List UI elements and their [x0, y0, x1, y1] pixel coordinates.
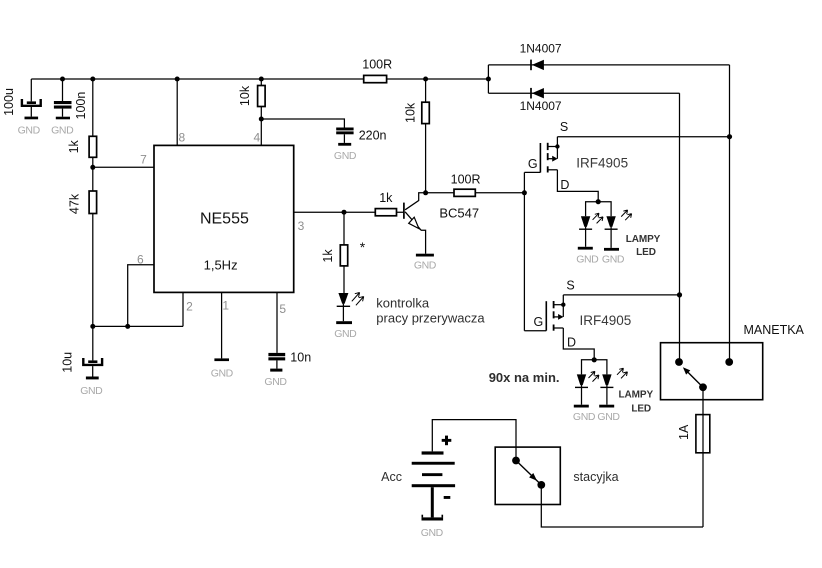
ground of D6 [573, 405, 596, 423]
wire pin4 node to 220n [261, 119, 344, 128]
svg-text:GND: GND [264, 376, 287, 388]
svg-text:S: S [566, 279, 574, 293]
svg-text:S: S [560, 120, 568, 134]
svg-text:GND: GND [597, 411, 620, 423]
wire gate bus vertical [523, 172, 525, 330]
wire pin 5 to 10n [276, 292, 278, 353]
node LED pair 2 [592, 357, 597, 362]
ground of battery [421, 515, 444, 539]
svg-text:D: D [560, 178, 569, 192]
svg-text:LED: LED [631, 404, 651, 415]
svg-text:GND: GND [576, 253, 599, 265]
wire top diode line [488, 64, 729, 66]
node pin4/220n [259, 117, 264, 122]
wire LED pair 2 branch [582, 360, 607, 375]
svg-text:LED: LED [636, 247, 656, 258]
node collector [423, 190, 428, 195]
LED D7 lampa [600, 368, 627, 405]
wire right rail A (to manetka right contact) [729, 65, 731, 362]
LED D6 lampa [575, 371, 599, 404]
capacitor C5 10n (pin 5) [268, 353, 285, 369]
svg-text:IRF4905: IRF4905 [576, 156, 628, 171]
svg-text:GND: GND [421, 527, 444, 539]
svg-text:GND: GND [211, 367, 234, 379]
node pin2-6/47k [90, 324, 95, 329]
capacitor C4 220n [336, 128, 353, 143]
capacitor C2 100n [54, 101, 72, 117]
ground of C2 [51, 117, 74, 137]
svg-text:GND: GND [334, 328, 357, 340]
wire 47k column pin7 node to pin2/6 node [92, 167, 94, 326]
ground of C3 [80, 377, 103, 398]
resistor R8 100R (gate) [454, 189, 475, 196]
LED D3 kontrolka [337, 293, 364, 322]
ground of C1 [18, 117, 41, 137]
wire V+ top rail [31, 78, 488, 80]
svg-text:220n: 220n [359, 128, 387, 142]
wire LED pair 1 branch [586, 202, 612, 217]
node rail/10k2 [423, 77, 428, 82]
svg-text:100R: 100R [362, 58, 392, 72]
wire 100n cap drop [62, 79, 64, 101]
wire right rail B (to manetka left contact) [679, 93, 681, 362]
svg-text:stacyjka: stacyjka [573, 470, 618, 484]
fuse F1 1A [696, 415, 710, 453]
wire battery to stacyjka [432, 420, 516, 461]
LED D5 lampa [605, 210, 632, 248]
svg-text:LAMPY: LAMPY [619, 389, 654, 400]
svg-text:G: G [528, 157, 538, 171]
ground of C4 [334, 143, 357, 162]
wire bottom run to stacyjka [541, 485, 703, 527]
battery B1 Acc [412, 436, 455, 518]
node rail/100n [60, 77, 65, 82]
node rail/pin8 [175, 77, 180, 82]
svg-text:7: 7 [140, 152, 147, 166]
svg-text:1k: 1k [321, 249, 335, 263]
ground of D7 [597, 405, 620, 423]
svg-text:GND: GND [334, 150, 357, 162]
diode D2 1N4007 [531, 88, 544, 99]
svg-text:BC547: BC547 [439, 206, 479, 221]
wire 100u cap drop [30, 79, 32, 101]
svg-text:100u: 100u [2, 88, 16, 116]
ground of pin 1 [211, 358, 234, 379]
svg-text:LAMPY: LAMPY [626, 234, 661, 245]
svg-text:kontrolka: kontrolka [376, 296, 430, 311]
wire Q2 source line [557, 136, 729, 138]
LED D4 lampa [579, 213, 603, 247]
svg-text:GND: GND [18, 124, 41, 136]
svg-text:8: 8 [178, 130, 185, 144]
svg-text:4: 4 [253, 130, 260, 144]
wire 1k kontrolka branch [343, 212, 345, 293]
svg-text:10u: 10u [61, 352, 75, 373]
svg-text:*: * [360, 239, 366, 255]
svg-text:100R: 100R [451, 172, 481, 186]
node Q2 source stub [555, 144, 559, 148]
svg-text:MANETKA: MANETKA [743, 323, 804, 337]
svg-text:10k: 10k [238, 85, 252, 106]
wire bottom diode line [488, 92, 679, 94]
switch SW1 contacts and lever [675, 358, 733, 391]
svg-text:1k: 1k [379, 191, 393, 205]
op-amp U1 NE555 box [154, 145, 294, 292]
svg-text:1: 1 [222, 299, 229, 313]
svg-text:90x na min.: 90x na min. [489, 370, 560, 385]
svg-text:1A: 1A [677, 424, 691, 440]
node pin3/kontrolka [342, 210, 347, 215]
svg-text:GND: GND [573, 411, 596, 423]
wire pin 3 output [294, 211, 403, 213]
svg-text:3: 3 [298, 219, 305, 233]
node S2/rail B [677, 292, 682, 297]
svg-text:GND: GND [602, 253, 625, 265]
capacitor C1 100u electrolytic [22, 99, 41, 117]
node rail/10k [259, 77, 264, 82]
svg-text:1N4007: 1N4007 [520, 42, 562, 56]
wire pin 8 [176, 79, 178, 145]
wire 10k2 column rail to collector node [425, 79, 427, 193]
wire pin 6 loop [128, 265, 154, 327]
resistor R4 100R (top rail) [364, 75, 387, 82]
switch SW2 contacts and lever [512, 457, 545, 489]
node junction dots [60, 77, 732, 363]
node pin7 divider [90, 165, 95, 170]
node pin2-6 loop [125, 324, 130, 329]
node Q3 source stub [561, 303, 565, 307]
ground of D5 [602, 248, 625, 265]
switch SW1 MANETKA box [661, 343, 763, 400]
node rail/1k [90, 77, 95, 82]
node gate bus [522, 190, 527, 195]
wire pin 2 [182, 292, 184, 326]
switch SW2 stacyjka box [495, 447, 560, 504]
svg-text:GND: GND [80, 385, 103, 397]
svg-text:pracy przerywacza: pracy przerywacza [376, 310, 485, 325]
svg-text:GND: GND [51, 124, 74, 136]
diode D1 1N4007 [531, 60, 544, 71]
svg-text:6: 6 [137, 252, 144, 266]
svg-text:D: D [567, 335, 576, 349]
svg-text:G: G [534, 315, 544, 329]
svg-text:1,5Hz: 1,5Hz [204, 258, 238, 273]
svg-text:IRF4905: IRF4905 [580, 313, 632, 328]
transistor Q2 IRF4905 (top) [524, 137, 557, 173]
wire collector node to 100R [426, 192, 454, 194]
svg-text:10k: 10k [404, 102, 418, 123]
node LED pair 1 [596, 199, 601, 204]
capacitor C3 10u electrolytic [83, 358, 102, 377]
wire manetka to fuse to bottom run [702, 387, 704, 527]
svg-text:Acc: Acc [381, 470, 402, 484]
svg-text:47k: 47k [68, 193, 82, 214]
wire pin2/6 bottom run [93, 325, 183, 327]
svg-text:100n: 100n [74, 92, 88, 120]
resistor R1 1k [89, 136, 97, 157]
transistor Q1 BC547 [404, 193, 426, 254]
svg-text:1k: 1k [67, 139, 81, 153]
svg-text:2: 2 [186, 299, 193, 313]
node rail/diodes [486, 77, 491, 82]
wire pin 7 [93, 166, 154, 168]
wire 100R to gate node [475, 192, 524, 194]
ground of C5 [264, 369, 287, 389]
resistor R7 1k (kontrolka) [340, 245, 347, 266]
wire 10u cap drop [92, 326, 94, 360]
svg-text:1N4007: 1N4007 [520, 99, 562, 113]
wire Q2 drain to LED node [557, 170, 598, 202]
transistor Q3 IRF4905 (bottom) [524, 295, 563, 331]
wire diode tee [487, 65, 489, 93]
wire Q3 source line [563, 294, 679, 296]
svg-text:GND: GND [414, 260, 437, 272]
ground of Q1 emitter [414, 254, 437, 272]
resistor R3 10k (pin4 pullup) [258, 86, 266, 107]
resistor R6 1k (base) [375, 209, 396, 216]
svg-text:5: 5 [279, 302, 286, 316]
ground of D4 [576, 247, 599, 265]
resistor R2 47k [89, 191, 97, 214]
wire 1k column from rail to pin7 node [92, 79, 94, 167]
ground of D3 [334, 321, 357, 340]
node S1/rail A [727, 134, 732, 139]
svg-text:NE555: NE555 [200, 210, 249, 227]
wire pin 1 to ground [221, 292, 223, 358]
wire 10k column rail to pin 4 [260, 79, 262, 145]
svg-text:10n: 10n [290, 350, 311, 364]
resistor R5 10k (collector pullup) [422, 102, 430, 123]
wire Q3 drain to LED node [563, 328, 594, 360]
